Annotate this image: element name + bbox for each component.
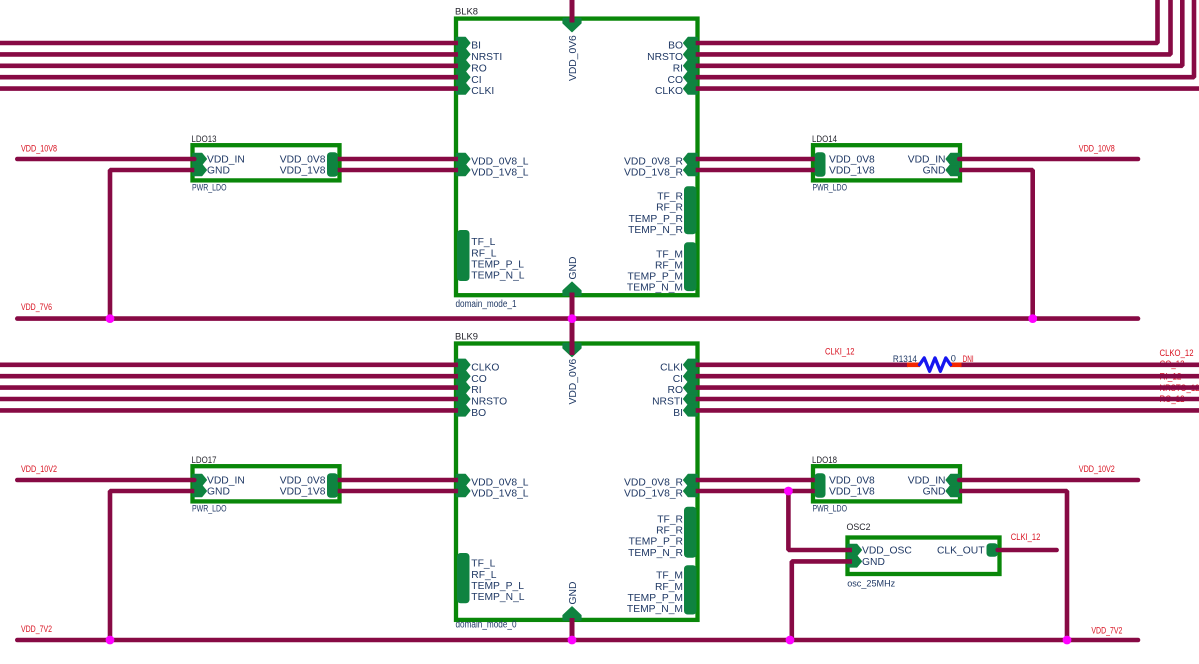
wire net VDD_1V8 LDO13 to BLK8 [338,168,458,173]
wire net BO (BLK8 right, to top edge) [696,0,1158,43]
wire net OSC2 GND [792,561,852,640]
svg-text:GND: GND [207,166,230,177]
svg-text:TF_M: TF_M [656,249,683,260]
svg-text:VDD_7V2: VDD_7V2 [1091,625,1122,635]
pin VDD_1V8_L [457,486,470,497]
svg-text:VDD_10V2: VDD_10V2 [1079,464,1115,474]
svg-text:TF_L: TF_L [471,237,495,248]
pin VDD_0V8 / VDD_1V8 tabs [815,473,826,498]
wire net RO (BLK8 left) [0,64,458,69]
svg-text:VDD_0V6: VDD_0V6 [568,358,579,404]
svg-text:CI: CI [471,75,481,86]
svg-text:GND: GND [568,257,579,280]
svg-text:BLK9: BLK9 [455,332,478,342]
pin VDD_0V6 (top) [563,344,581,357]
svg-text:CLKI_12: CLKI_12 [1011,532,1041,542]
svg-text:VDD_7V2: VDD_7V2 [21,624,52,634]
wire net VDD_1V8 LDO17 to BLK9 [338,489,458,494]
svg-text:TEMP_N_M: TEMP_N_M [627,604,683,615]
svg-text:BO: BO [471,408,486,419]
svg-text:GND: GND [207,487,230,498]
pin CLK_OUT [987,543,999,557]
wire net VDD_0V8 LDO17 to BLK9 [338,478,458,483]
wire net VDD_10V8 from LDO14 [959,157,1138,162]
svg-text:TEMP_P_R: TEMP_P_R [629,537,683,548]
svg-text:GND: GND [862,557,885,568]
svg-text:domain_mode_1: domain_mode_1 [456,299,517,310]
pin VDD_0V8_L [457,154,470,165]
pin VDD_IN [193,154,206,165]
svg-text:VDD_0V8: VDD_0V8 [280,476,326,487]
pin VDD_IN [946,475,959,486]
LDO regulator LDO13 body [193,145,340,180]
wire net NRSTO (BLK8 right, to top edge) [696,0,1171,54]
svg-text:CLKI: CLKI [471,86,494,97]
pin VDD_1V8_R [684,165,697,176]
svg-text:RF_L: RF_L [471,570,496,581]
svg-text:CO: CO [471,374,486,385]
wire net RI (BLK8 right, to top edge) [696,0,1183,66]
wire net CLKO (BLK8 right, exits edge) [696,86,1199,91]
junction VDD_7V6 / center vertical [568,314,577,323]
svg-text:VDD_1V8_R: VDD_1V8_R [624,168,683,179]
svg-text:DNI: DNI [963,354,974,364]
pin GND [193,486,206,497]
pin BO [457,405,470,416]
pin NRSTO [457,394,470,405]
svg-text:TEMP_N_R: TEMP_N_R [628,548,683,559]
svg-text:CLKO_12: CLKO_12 [1160,348,1194,358]
pin RO [684,382,697,393]
svg-text:RO: RO [471,63,486,74]
junction VDD_7V2 / LDO18 GND [1063,636,1072,645]
pin RO [457,60,470,71]
svg-text:VDD_1V8: VDD_1V8 [829,487,875,498]
wire net VDD_0V8 BLK8 to LDO14 [696,157,815,162]
wire net BLK9 GND drop [570,618,575,640]
pin RI [457,382,470,393]
svg-text:VDD_IN: VDD_IN [207,155,245,166]
svg-text:VDD_IN: VDD_IN [908,155,946,166]
pin NRSTI [684,394,697,405]
junction VDD_7V6 / LDO14 GND [1028,314,1037,323]
svg-text:TEMP_P_M: TEMP_P_M [627,593,683,604]
svg-text:RF_L: RF_L [471,248,496,259]
svg-text:CLKI: CLKI [660,362,683,373]
svg-text:TEMP_N_L: TEMP_N_L [471,271,524,282]
wire net BI (BLK8 left) [0,41,458,46]
wire net VDD_0V6 (top feed to BLK8) [570,0,575,23]
svg-text:RI: RI [471,385,481,396]
svg-text:OSC2: OSC2 [847,522,871,532]
svg-text:VDD_0V8: VDD_0V8 [829,476,875,487]
svg-text:VDD_1V8: VDD_1V8 [280,487,326,498]
pin CLKI [457,83,470,94]
pin NRSTO [684,49,697,60]
svg-text:BI: BI [673,408,683,419]
svg-text:TEMP_P_L: TEMP_P_L [471,581,524,592]
pin NRSTI [457,49,470,60]
resistor R1314 zigzag [920,358,951,371]
svg-text:RF_R: RF_R [656,526,683,537]
svg-text:VDD_0V8_R: VDD_0V8_R [624,478,683,489]
LDO regulator LDO17 body [193,466,340,501]
svg-text:NRSTO: NRSTO [471,397,507,408]
pin BI [457,38,470,49]
junction VDD_7V2 / OSC2 GND [786,636,795,645]
block BLK8 body [456,19,698,296]
pin BI [684,405,697,416]
wire net VDD_10V2 from LDO18 [959,478,1138,483]
svg-text:TEMP_P_R: TEMP_P_R [629,214,683,225]
pin group TF_R/RF_R/TEMP_P_R/TEMP_N_R [684,507,697,558]
pin VDD_0V6 (top) [563,19,581,32]
junction VDD_7V2 / BLK9 GND [568,636,577,645]
svg-text:VDD_1V8_L: VDD_1V8_L [471,168,529,179]
pin group TF_L/RF_L/TEMP_P_L/TEMP_N_L [457,230,470,281]
svg-text:VDD_1V8: VDD_1V8 [829,166,875,177]
svg-text:LDO18: LDO18 [812,455,837,465]
svg-text:VDD_0V8_L: VDD_0V8_L [471,478,529,489]
pin VDD_IN [193,475,206,486]
wire net CLKI_12 (BLK9 to R1314) [696,362,908,367]
wire net NRSTI (BLK9 right, exits edge) [696,397,1199,402]
wire net CI (BLK8 left) [0,75,458,80]
svg-text:VDD_10V8: VDD_10V8 [1079,144,1115,154]
wire net VDD_0V8 LDO13 to BLK8 [338,157,458,162]
wire net VDD_7V6 rail [17,316,1138,321]
svg-text:CLKO: CLKO [655,86,683,97]
wire net CI (BLK9 right, exits edge) [696,374,1199,379]
pin CLKO [684,83,697,94]
pin group TF_M/RF_M/TEMP_P_M/TEMP_N_M [684,565,697,614]
svg-text:VDD_0V8_L: VDD_0V8_L [471,157,529,168]
pin GND [946,165,959,176]
pin CI [684,371,697,382]
svg-text:TF_R: TF_R [657,514,683,525]
svg-text:TEMP_N_M: TEMP_N_M [627,283,683,294]
svg-text:PWR_LDO: PWR_LDO [192,504,227,514]
wire net VDD_1V8 BLK9 to LDO18 [696,489,815,494]
pin GND [848,556,861,567]
svg-text:VDD_7V6: VDD_7V6 [21,302,52,312]
pin CLKO [457,359,470,370]
wire net NRSTO (BLK9 left) [0,397,458,402]
pin group TF_L/RF_L/TEMP_P_L/TEMP_N_L [457,553,470,603]
svg-text:VDD_10V2: VDD_10V2 [21,464,57,474]
wire net LDO13 GND [110,170,194,319]
pin VDD_IN [946,154,959,165]
pin VDD_1V8_L [457,165,470,176]
pin VDD_0V8 / VDD_1V8 tabs [815,152,826,177]
svg-text:BI: BI [471,41,481,52]
svg-text:RF_M: RF_M [655,260,683,271]
svg-text:TEMP_P_L: TEMP_P_L [471,260,524,271]
pin GND [193,165,206,176]
pin CO [684,72,697,83]
svg-text:CLK_OUT: CLK_OUT [937,546,985,557]
svg-text:CO: CO [668,75,683,86]
oscillator OSC2 body [848,538,1000,575]
svg-text:NRSTI: NRSTI [471,52,502,63]
svg-text:NRSTO: NRSTO [647,52,683,63]
svg-text:GND: GND [568,582,579,605]
junction VDD_1V8 / OSC2 branch [784,487,793,496]
svg-text:RO: RO [668,385,683,396]
wire net VDD_7V2 rail [17,638,1138,643]
junction VDD_7V2 / LDO17 GND [106,636,115,645]
svg-text:VDD_10V8: VDD_10V8 [21,144,57,154]
svg-text:VDD_0V8: VDD_0V8 [280,155,326,166]
pin VDD_0V8 / VDD_1V8 tabs [327,473,338,498]
svg-text:CI: CI [673,374,683,385]
wire net VDD_10V8 into LDO13 [17,157,194,162]
resistor R1314 lead right [950,362,962,367]
svg-text:VDD_IN: VDD_IN [908,476,946,487]
svg-text:LDO13: LDO13 [192,134,217,144]
svg-text:RF_R: RF_R [656,203,683,214]
svg-text:TF_R: TF_R [657,192,683,203]
wire net LDO18 GND [959,491,1067,640]
svg-text:LDO14: LDO14 [812,134,837,144]
wire net NRSTI (BLK8 left) [0,52,458,57]
svg-text:TEMP_P_M: TEMP_P_M [627,272,683,283]
LDO regulator LDO18 body [813,466,960,501]
svg-text:osc_25MHz: osc_25MHz [847,578,895,589]
svg-text:GND: GND [923,166,946,177]
pin CO [457,371,470,382]
wire net CLKO (BLK9 left) [0,362,458,367]
svg-text:VDD_1V8_R: VDD_1V8_R [624,489,683,500]
svg-text:VDD_OSC: VDD_OSC [862,546,912,557]
wire net BO (BLK9 left) [0,408,458,413]
svg-text:PWR_LDO: PWR_LDO [813,504,848,514]
wire net between BLK8 GND and BLK9 VDD_0V6 [570,293,575,356]
block BLK9 body [456,344,698,620]
svg-text:TEMP_N_L: TEMP_N_L [471,592,524,603]
svg-text:CLKI_12: CLKI_12 [825,347,855,357]
pin RI [684,60,697,71]
pin VDD_0V8_L [457,475,470,486]
pin group TF_R/RF_R/TEMP_P_R/TEMP_N_R [684,186,697,234]
svg-text:VDD_1V8_L: VDD_1V8_L [471,489,529,500]
pin VDD_OSC [848,545,861,556]
LDO regulator LDO14 body [813,145,960,180]
wire net CLKI (BLK8 left) [0,86,458,91]
pin GND (bottom) [563,282,581,295]
svg-text:PWR_LDO: PWR_LDO [813,183,848,193]
wire net RO (BLK9 right, exits edge) [696,385,1199,390]
pin CI [457,72,470,83]
svg-text:NRSTI: NRSTI [652,397,683,408]
svg-text:BO: BO [668,41,683,52]
svg-text:LDO17: LDO17 [192,455,217,465]
wire net CO (BLK8 right, to top edge) [696,0,1194,77]
pin VDD_0V8_R [684,154,697,165]
svg-text:VDD_0V8: VDD_0V8 [829,155,875,166]
pin CLKI [684,359,697,370]
wire net CO (BLK9 left) [0,374,458,379]
wire net VDD_10V2 into LDO17 [17,478,194,483]
svg-text:VDD_1V8: VDD_1V8 [280,166,326,177]
wire net VDD_1V8 branch to OSC2 VDD_OSC [788,491,852,550]
pin GND (bottom) [563,607,581,620]
wire net VDD_1V8 BLK8 to LDO14 [696,168,815,173]
svg-text:CLKO: CLKO [471,362,499,373]
svg-text:TEMP_N_R: TEMP_N_R [628,225,683,236]
svg-text:GND: GND [923,487,946,498]
wire net BI (BLK9 right, exits edge) [696,408,1199,413]
pin group TF_M/RF_M/TEMP_P_M/TEMP_N_M [684,242,697,291]
svg-text:TF_M: TF_M [656,571,683,582]
pin VDD_0V8 / VDD_1V8 tabs [327,152,338,177]
pin VDD_0V8_R [684,475,697,486]
svg-text:VDD_IN: VDD_IN [207,476,245,487]
svg-text:PWR_LDO: PWR_LDO [192,183,227,193]
junction VDD_7V6 / LDO13 GND [106,314,115,323]
svg-text:domain_mode_0: domain_mode_0 [456,620,517,631]
pin VDD_1V8_R [684,486,697,497]
svg-text:BLK8: BLK8 [455,7,478,17]
wire net CLKI_12 from OSC2 [998,548,1057,553]
svg-text:R1314: R1314 [893,354,917,364]
svg-text:TF_L: TF_L [471,559,495,570]
pin BO [684,38,697,49]
wire net LDO17 GND [110,491,194,640]
wire net CLKO_12 (R1314 to edge) [961,362,1199,367]
wire net RI (BLK9 left) [0,385,458,390]
wire net LDO14 GND [959,170,1032,319]
svg-text:0: 0 [951,354,956,364]
svg-text:VDD_0V8_R: VDD_0V8_R [624,157,683,168]
wire net VDD_0V8 BLK9 to LDO18 [696,478,815,483]
svg-text:RF_M: RF_M [655,582,683,593]
resistor R1314 lead left [907,362,920,367]
pin GND [946,486,959,497]
svg-text:RI: RI [673,63,683,74]
svg-text:VDD_0V6: VDD_0V6 [568,35,579,81]
